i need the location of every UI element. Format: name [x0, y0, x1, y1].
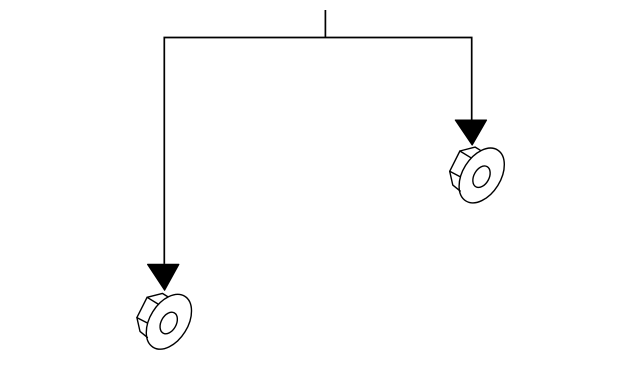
- nut part right: [450, 140, 514, 211]
- nut part left: [137, 286, 201, 357]
- arrow right: [455, 120, 486, 145]
- wire: top stub: [324, 10, 326, 38]
- wire: left vertical + horizontal + right vertical: [164, 38, 471, 264]
- arrow left: [148, 264, 179, 290]
